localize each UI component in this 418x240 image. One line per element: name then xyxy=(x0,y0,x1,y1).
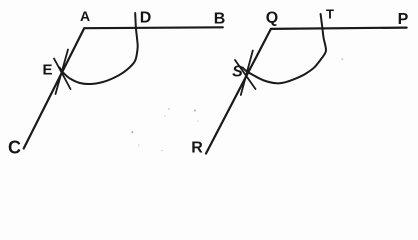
wire rays P-Q-R (right angle sides) xyxy=(206,28,407,154)
tick mark 2 at E xyxy=(54,59,71,90)
svg-text:C: C xyxy=(8,138,21,158)
tick mark 2 at S xyxy=(235,60,256,89)
svg-text:B: B xyxy=(214,11,226,28)
svg-text:S: S xyxy=(232,64,243,81)
svg-text:A: A xyxy=(80,8,90,24)
svg-text:Q: Q xyxy=(266,10,278,27)
arc D-E (compass arc, left figure) xyxy=(60,13,138,84)
wire rays B-A-C (left angle sides) xyxy=(24,27,223,148)
svg-text:T: T xyxy=(326,7,334,22)
tick mark 1 at E xyxy=(56,50,69,95)
tick mark 1 at S xyxy=(241,51,253,96)
speck noise dots xyxy=(194,109,196,111)
svg-text:R: R xyxy=(191,140,203,157)
svg-text:D: D xyxy=(140,10,152,27)
svg-text:E: E xyxy=(42,62,52,79)
svg-text:P: P xyxy=(398,11,409,28)
arc T-S (compass arc, right figure) xyxy=(243,14,326,83)
